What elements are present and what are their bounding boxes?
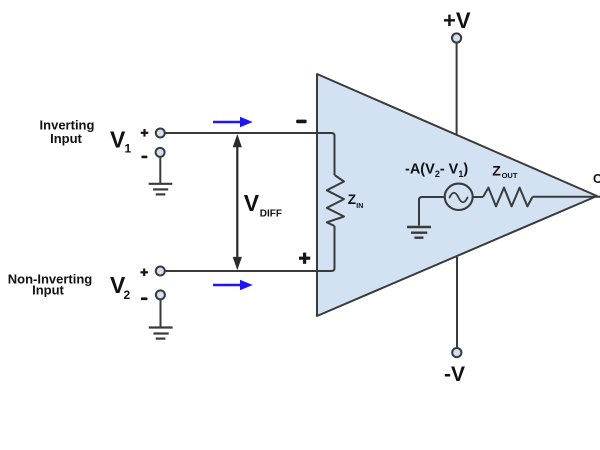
svg-text:V: V [244,190,260,216]
svg-text:Ou: Ou [593,172,600,186]
svg-text:IN: IN [356,203,363,210]
svg-text:OUT: OUT [502,171,518,180]
svg-text:DIFF: DIFF [260,209,282,220]
svg-text:Input: Input [32,283,64,298]
svg-text:Input: Input [50,131,82,146]
svg-text:2: 2 [124,288,131,302]
svg-text:-V: -V [444,363,465,386]
svg-text:+V: +V [443,8,471,33]
svg-text:Z: Z [348,192,356,207]
svg-text:Z: Z [492,163,501,179]
svg-text:1: 1 [125,142,132,156]
